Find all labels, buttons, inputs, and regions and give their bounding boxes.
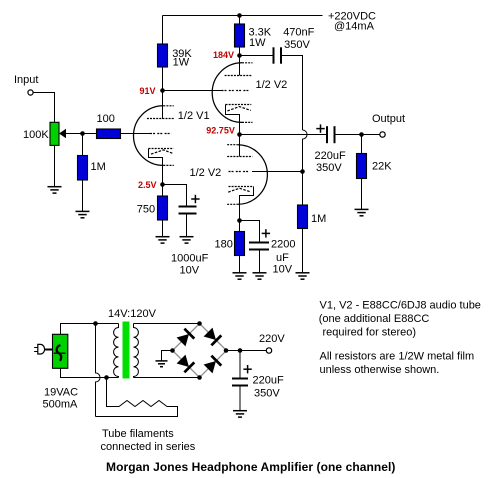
label Tube filaments connected in series: [101, 428, 196, 453]
resistor 3.3K: [235, 24, 245, 47]
ground below 750: [156, 237, 170, 243]
junction bridge left: [170, 348, 175, 353]
svg-text:connected in series: connected in series: [101, 441, 196, 453]
tube V1 envelope: [133, 106, 173, 166]
wire 100 to V1 grid: [121, 133, 151, 135]
transformer secondary winding: [134, 324, 139, 378]
label 92.75V: [206, 125, 235, 135]
label +220VDC: [328, 11, 376, 23]
capacitor 220uF PSU: [232, 379, 248, 386]
wire 92.75V node to output cap: [240, 134, 327, 136]
tube V2a envelope: [212, 63, 252, 123]
wire 2.5V node to 1000uF: [163, 185, 187, 206]
resistor 750: [158, 196, 168, 220]
ground below 180: [233, 273, 247, 279]
svg-text:750: 750: [137, 203, 155, 215]
diode D1 top-left: [176, 329, 194, 347]
svg-text:470nF: 470nF: [283, 26, 314, 38]
svg-text:91V: 91V: [140, 86, 156, 96]
svg-text:10V: 10V: [180, 265, 200, 277]
resistor 100: [97, 129, 121, 139]
output terminal: [380, 132, 385, 137]
wire wiper to grid node: [65, 133, 97, 135]
junction bridge bottom: [197, 375, 202, 380]
wire 22K to ground: [361, 179, 363, 210]
220V terminal: [266, 348, 271, 353]
tube V2b plate lead: [239, 135, 241, 157]
junction 92.75V node: [237, 132, 242, 137]
label 39K 1W: [172, 48, 192, 69]
tube V2a plate: [225, 75, 252, 77]
note resistor wattage: [320, 351, 475, 377]
svg-text:1/2 V2: 1/2 V2: [190, 167, 222, 179]
capacitor 2200uF plus sign: [262, 229, 270, 237]
title Morgan Jones Headphone Amplifier: [106, 460, 395, 474]
capacitor 470nF: [274, 47, 282, 63]
capacitor 220uF PSU plus sign: [243, 365, 251, 373]
potentiometer wiper arrow: [59, 129, 66, 139]
wire output node to 22K: [361, 135, 363, 154]
svg-text:100: 100: [97, 113, 115, 125]
svg-text:350V: 350V: [284, 39, 310, 51]
tube V1 grid: [150, 133, 172, 135]
label Input: [14, 74, 38, 86]
wire node to 1M left: [82, 134, 84, 156]
svg-text:1W: 1W: [173, 56, 190, 68]
tube V1 plate lead: [162, 91, 164, 120]
resistor 1M left: [78, 156, 88, 181]
ground below 220uF PSU: [233, 411, 247, 417]
transformer primary winding: [114, 324, 119, 378]
junction V2b cathode node: [237, 218, 242, 223]
capacitor 220uF output plus sign: [316, 124, 324, 132]
svg-text:350V: 350V: [254, 388, 280, 400]
label 3.3K 1W: [249, 27, 272, 50]
tube V1 plate: [147, 118, 174, 120]
capacitor 2200uF: [249, 243, 269, 250]
label 220uF 350V output: [315, 150, 346, 174]
label 180: [215, 239, 233, 251]
capacitor 1000uF plus sign: [191, 195, 199, 203]
tube V2b plate: [227, 156, 252, 158]
label 91V: [140, 86, 156, 96]
svg-text:Tube filaments: Tube filaments: [102, 428, 174, 440]
svg-text:(one additional E88CC: (one additional E88CC: [319, 313, 430, 325]
junction bridge top: [197, 321, 202, 326]
svg-text:Morgan Jones Headphone Amplifi: Morgan Jones Headphone Amplifier (one ch…: [106, 460, 395, 474]
svg-text:V1, V2 - E88CC/6DJ8 audio tu: V1, V2 - E88CC/6DJ8 audio tube: [320, 300, 481, 312]
label 220V: [259, 333, 285, 345]
wire adapter bottom to transformer: [61, 368, 119, 377]
svg-text:184V: 184V: [213, 50, 234, 60]
filament feed wire with hop: [96, 324, 101, 417]
diode D2 top-right: [203, 327, 221, 345]
tube V2a cathode: [226, 105, 252, 135]
svg-text:required for stereo): required for stereo): [323, 327, 417, 339]
svg-text:2.5V: 2.5V: [138, 180, 157, 190]
svg-text:220V: 220V: [259, 333, 285, 345]
wire hop over output line: [303, 130, 308, 172]
svg-text:1M: 1M: [91, 161, 106, 173]
tube V2b cathode: [228, 187, 253, 221]
potentiometer 100K body: [50, 122, 59, 145]
svg-text:2200: 2200: [271, 239, 295, 251]
capacitor 1000uF: [179, 207, 197, 214]
junction PSU output node: [238, 348, 243, 353]
label 1M right: [311, 213, 326, 225]
label 1/2 V2 lower: [190, 167, 222, 179]
wire cathode node to 2200uF: [240, 221, 260, 242]
wire 3.3K to 184V node: [239, 47, 241, 56]
wire bridge left to ground: [162, 351, 173, 361]
label 470nF 350V: [283, 26, 314, 51]
wire 91V node to V2a grid: [163, 90, 222, 92]
junction filament bottom node: [104, 375, 109, 380]
junction 184V node: [237, 53, 242, 58]
svg-text:500mA: 500mA: [43, 399, 79, 411]
wire 2200uF to ground: [259, 250, 261, 273]
wire pot bottom to ground: [54, 145, 56, 186]
resistor 1M right: [298, 205, 308, 229]
wire 1M left to ground: [82, 180, 84, 211]
wire 220uF PSU to ground: [239, 386, 241, 411]
junction output node: [359, 132, 364, 137]
svg-text:Input: Input: [14, 74, 38, 86]
tube V2a plate lead: [239, 56, 241, 76]
wire 184V node to 470nF: [240, 55, 274, 57]
ground below 22K: [355, 209, 369, 215]
svg-text:14V:120V: 14V:120V: [108, 308, 157, 320]
resistor 180: [235, 232, 245, 256]
wire rail to 3.3K: [239, 16, 241, 25]
label 100K: [23, 129, 49, 141]
note V1 V2 tube types: [319, 300, 481, 339]
wire 2.5V node to 750: [162, 185, 164, 197]
capacitor 220uF output: [327, 126, 335, 143]
ground at bridge left: [156, 361, 168, 367]
tube V2b grid: [229, 171, 251, 173]
svg-text:350V: 350V: [316, 162, 342, 174]
wire cathode node to 180: [239, 221, 241, 232]
label 2.5V: [138, 180, 157, 190]
diode D3 bottom-left: [176, 354, 194, 372]
junction rail to 3.3K: [237, 13, 242, 18]
svg-text:unless otherwise shown.: unless otherwise shown.: [320, 364, 440, 376]
tube V2b envelope: [227, 145, 267, 205]
wire 39K to 91V node: [162, 67, 164, 91]
diode D4 bottom-right: [203, 356, 221, 374]
transformer core: [123, 322, 130, 379]
label 1/2 V2 upper: [256, 79, 288, 91]
svg-text:Output: Output: [372, 113, 405, 125]
wire input to pot top: [33, 93, 54, 123]
svg-text:1W: 1W: [249, 37, 266, 49]
label 100: [97, 113, 115, 125]
input terminal: [28, 90, 33, 95]
label 184V: [213, 50, 234, 60]
resistor 22K: [357, 154, 367, 179]
svg-text:92.75V: 92.75V: [206, 125, 235, 135]
AC adapter 19VAC: [53, 334, 68, 368]
tube filament heaters loop: [96, 378, 178, 417]
svg-text:220uF: 220uF: [315, 150, 346, 162]
tube V2a grid: [222, 90, 249, 92]
resistor 39K: [158, 44, 168, 67]
label 1M left: [91, 161, 106, 173]
wire feedback node to 1M right: [302, 172, 304, 206]
ground below 1M right: [296, 273, 310, 279]
junction feedback node: [300, 169, 305, 174]
wire secondary bottom to bridge: [134, 377, 200, 379]
label 1/2 V1: [178, 110, 210, 122]
svg-text:1M: 1M: [311, 213, 326, 225]
junction 2.5V node: [160, 182, 165, 187]
wire 750 to ground: [162, 220, 164, 236]
bridge rectifier frame: [173, 324, 227, 378]
svg-text:All resistors are 1/2W metal f: All resistors are 1/2W metal film: [320, 351, 475, 363]
label 14V:120V: [108, 308, 157, 320]
svg-text:1/2 V2: 1/2 V2: [256, 79, 288, 91]
label 220uF 350V PSU: [253, 375, 284, 400]
label 19VAC 500mA: [43, 387, 79, 411]
label @14mA: [334, 21, 375, 33]
wire 1000uF to ground: [186, 214, 188, 237]
top rail +220VDC: [163, 15, 323, 17]
svg-text:19VAC: 19VAC: [44, 387, 78, 399]
junction pot wiper node: [80, 131, 85, 136]
svg-text:22K: 22K: [372, 161, 392, 173]
label Output: [372, 113, 405, 125]
svg-text:uF: uF: [276, 252, 289, 264]
tube V1 cathode: [149, 149, 174, 185]
svg-text:1000uF: 1000uF: [171, 253, 209, 265]
wire rail to 39K: [162, 16, 164, 45]
junction 91V node: [160, 88, 165, 93]
wire secondary top to bridge: [134, 323, 200, 325]
svg-text:220uF: 220uF: [253, 375, 284, 387]
wire V2b grid to feedback node: [252, 171, 303, 173]
label 22K: [372, 161, 392, 173]
label 2200 uF 10V: [271, 239, 295, 276]
svg-text:180: 180: [215, 239, 233, 251]
ground below 1000uF: [180, 237, 194, 243]
wire 220uF to output: [335, 134, 380, 136]
ground below 1M left: [76, 211, 90, 217]
label 750: [137, 203, 155, 215]
wire bridge right to 220V terminal: [226, 350, 266, 352]
svg-text:1/2 V1: 1/2 V1: [178, 110, 210, 122]
label 1000uF 10V: [171, 253, 209, 277]
svg-text:10V: 10V: [273, 264, 293, 276]
wire 470nF to feedback line: [282, 56, 303, 131]
svg-text:100K: 100K: [23, 129, 49, 141]
mains plug: [34, 344, 52, 354]
ground below pot: [48, 187, 62, 193]
wire adapter top to transformer: [61, 324, 119, 335]
wire 180 to ground: [239, 256, 241, 273]
ground below 2200uF: [253, 273, 267, 279]
wire 1M right to ground: [302, 229, 304, 273]
wire PSU node to 220uF: [239, 351, 241, 378]
svg-text:@14mA: @14mA: [334, 21, 375, 33]
junction filament top node: [93, 321, 98, 326]
junction bridge right: [224, 348, 229, 353]
